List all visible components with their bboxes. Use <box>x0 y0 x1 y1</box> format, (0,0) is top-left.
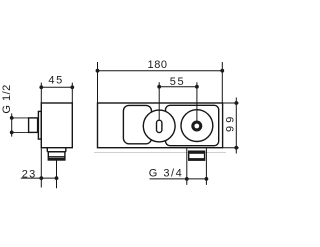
svg-text:66: 66 <box>223 117 235 136</box>
svg-text:G 1/2: G 1/2 <box>1 84 13 113</box>
svg-text:55: 55 <box>170 76 185 88</box>
svg-text:45: 45 <box>48 75 63 87</box>
svg-text:180: 180 <box>148 59 168 71</box>
svg-text:23: 23 <box>22 168 37 180</box>
svg-text:G 3/4: G 3/4 <box>149 168 183 180</box>
